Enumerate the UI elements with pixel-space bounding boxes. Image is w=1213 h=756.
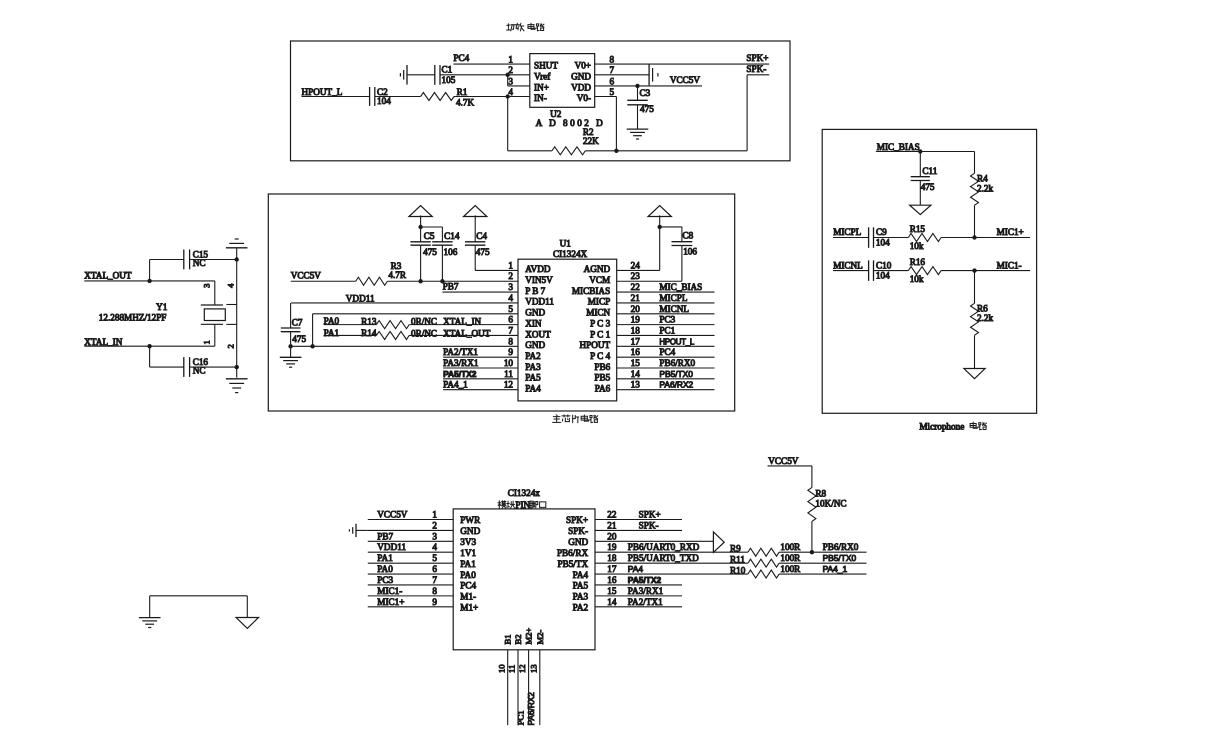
svg-text:PA3: PA3 <box>525 362 541 372</box>
svg-text:104: 104 <box>377 96 391 106</box>
svg-text:VCM: VCM <box>589 275 610 285</box>
svg-text:22K: 22K <box>583 136 599 146</box>
svg-text:21: 21 <box>607 520 617 530</box>
svg-text:MICBIAS: MICBIAS <box>572 286 610 296</box>
svg-text:SPK-: SPK- <box>639 520 659 530</box>
svg-text:V0+: V0+ <box>575 61 591 71</box>
svg-text:XOUT: XOUT <box>525 329 551 339</box>
svg-text:PC4: PC4 <box>453 53 469 63</box>
svg-text:1: 1 <box>508 55 513 65</box>
svg-text:2: 2 <box>432 520 437 530</box>
svg-text:GND: GND <box>525 308 545 318</box>
svg-text:PC1: PC1 <box>659 325 675 335</box>
svg-text:PA3/RX1: PA3/RX1 <box>443 358 479 368</box>
svg-text:GND: GND <box>460 526 480 536</box>
svg-text:5: 5 <box>610 87 615 97</box>
svg-text:2: 2 <box>226 344 236 348</box>
svg-text:C1: C1 <box>442 65 453 75</box>
svg-text:4: 4 <box>508 293 513 303</box>
svg-text:PB6/RX0: PB6/RX0 <box>823 542 859 552</box>
svg-text:1V1: 1V1 <box>460 548 476 558</box>
svg-text:R10: R10 <box>730 566 746 576</box>
svg-text:PB5/TX0: PB5/TX0 <box>823 553 857 563</box>
svg-text:475: 475 <box>423 247 437 257</box>
svg-text:CI1324x: CI1324x <box>508 488 541 498</box>
svg-text:MIC_BIAS: MIC_BIAS <box>659 282 702 292</box>
svg-text:R9: R9 <box>730 544 741 554</box>
svg-text:6: 6 <box>432 564 437 574</box>
svg-text:7: 7 <box>432 575 437 585</box>
svg-text:MICPL: MICPL <box>833 227 861 237</box>
svg-text:17: 17 <box>631 336 641 346</box>
svg-text:XTAL_IN: XTAL_IN <box>84 337 122 347</box>
svg-text:MIC1+: MIC1+ <box>997 227 1024 237</box>
svg-text:SPK+: SPK+ <box>566 515 588 525</box>
svg-text:1: 1 <box>202 340 212 344</box>
svg-text:C5: C5 <box>424 231 435 241</box>
svg-text:PA4_1: PA4_1 <box>443 380 468 390</box>
svg-text:PA2/TX1: PA2/TX1 <box>443 347 478 357</box>
svg-text:12.288MHZ/12PF: 12.288MHZ/12PF <box>99 312 167 322</box>
svg-text:19: 19 <box>607 542 617 552</box>
svg-text:PA4: PA4 <box>525 383 541 393</box>
svg-text:8: 8 <box>610 55 615 65</box>
svg-text:22: 22 <box>607 510 617 520</box>
svg-text:MIC_BIAS: MIC_BIAS <box>877 142 920 152</box>
svg-text:PA4: PA4 <box>628 564 644 574</box>
svg-text:XTAL_OUT: XTAL_OUT <box>84 270 132 280</box>
svg-text:13: 13 <box>528 664 538 673</box>
svg-text:VCC5V: VCC5V <box>377 510 407 520</box>
svg-text:1: 1 <box>432 510 437 520</box>
svg-text:475: 475 <box>292 334 306 344</box>
svg-text:IN-: IN- <box>534 93 547 103</box>
svg-text:XTAL_OUT: XTAL_OUT <box>443 329 491 339</box>
svg-text:PA5: PA5 <box>573 581 589 591</box>
svg-text:104: 104 <box>876 238 890 248</box>
svg-text:PA3/RX1: PA3/RX1 <box>628 586 664 596</box>
svg-text:11: 11 <box>504 369 513 379</box>
svg-text:5: 5 <box>432 553 437 563</box>
svg-text:PB5: PB5 <box>594 373 610 383</box>
svg-text:PB5/TX: PB5/TX <box>557 559 588 569</box>
svg-text:24: 24 <box>631 260 641 270</box>
svg-text:19: 19 <box>631 315 641 325</box>
svg-text:0R/NC: 0R/NC <box>411 316 437 326</box>
svg-text:VCC5V: VCC5V <box>670 75 700 85</box>
svg-text:PA5: PA5 <box>525 373 541 383</box>
svg-text:14: 14 <box>607 597 617 607</box>
svg-text:MIC1-: MIC1- <box>377 586 402 596</box>
svg-text:21: 21 <box>631 293 641 303</box>
svg-text:VDD11: VDD11 <box>377 542 406 552</box>
svg-text:PWR: PWR <box>460 515 481 525</box>
svg-text:M2-: M2- <box>535 630 545 645</box>
svg-text:Vref: Vref <box>534 71 551 81</box>
svg-text:PB7: PB7 <box>443 282 459 292</box>
svg-text:6: 6 <box>508 315 513 325</box>
svg-text:GND: GND <box>568 537 588 547</box>
svg-text:AVDD: AVDD <box>525 264 551 274</box>
svg-text:Microphone: Microphone <box>919 422 964 432</box>
svg-text:R15: R15 <box>910 224 926 234</box>
svg-text:4.7R: 4.7R <box>388 270 406 280</box>
svg-text:PB5/UART0_TXD: PB5/UART0_TXD <box>628 553 699 563</box>
svg-text:MICP: MICP <box>588 297 610 307</box>
svg-text:R16: R16 <box>910 257 926 267</box>
svg-text:104: 104 <box>876 271 890 281</box>
svg-text:MICPL: MICPL <box>659 293 687 303</box>
svg-text:C7: C7 <box>292 318 303 328</box>
svg-text:XTAL_IN: XTAL_IN <box>443 316 481 326</box>
svg-text:AGND: AGND <box>584 264 611 274</box>
svg-text:R8: R8 <box>815 488 826 498</box>
svg-text:PC4: PC4 <box>659 347 675 357</box>
svg-text:SHUT: SHUT <box>534 61 558 71</box>
svg-text:P B 7: P B 7 <box>525 286 545 296</box>
svg-text:16: 16 <box>631 347 641 357</box>
svg-text:18: 18 <box>607 553 617 563</box>
svg-text:VCC5V: VCC5V <box>291 270 321 280</box>
svg-text:6: 6 <box>610 76 615 86</box>
svg-text:1: 1 <box>508 260 513 270</box>
svg-text:15: 15 <box>607 586 617 596</box>
svg-text:PA4_1: PA4_1 <box>823 564 848 574</box>
svg-text:PA3: PA3 <box>573 592 589 602</box>
svg-text:PA6/RX2: PA6/RX2 <box>659 380 693 390</box>
svg-text:R4: R4 <box>977 173 988 183</box>
svg-text:4: 4 <box>226 283 236 288</box>
svg-text:475: 475 <box>921 182 935 192</box>
svg-text:PC1: PC1 <box>516 710 526 725</box>
svg-text:PA1: PA1 <box>460 559 476 569</box>
svg-text:C8: C8 <box>683 231 694 241</box>
svg-text:4: 4 <box>508 87 513 97</box>
svg-text:R1: R1 <box>457 87 468 97</box>
svg-text:3: 3 <box>202 284 212 288</box>
svg-text:VDD11: VDD11 <box>525 297 554 307</box>
svg-text:M1-: M1- <box>460 592 476 602</box>
svg-text:M2+: M2+ <box>524 628 534 645</box>
svg-text:SPK-: SPK- <box>746 64 766 74</box>
svg-text:7: 7 <box>508 325 513 335</box>
svg-text:22: 22 <box>631 282 641 292</box>
svg-text:MIC1+: MIC1+ <box>377 597 404 607</box>
svg-text:C11: C11 <box>922 166 937 176</box>
svg-text:106: 106 <box>683 247 697 257</box>
svg-text:105: 105 <box>442 75 456 85</box>
svg-text:R13: R13 <box>361 316 377 326</box>
svg-text:B2: B2 <box>513 634 523 644</box>
svg-text:10k: 10k <box>910 274 924 284</box>
svg-text:M1+: M1+ <box>460 602 478 612</box>
svg-text:20: 20 <box>607 531 617 541</box>
svg-text:PB6/UART0_RXD: PB6/UART0_RXD <box>628 542 700 552</box>
svg-text:5: 5 <box>508 304 513 314</box>
svg-text:PA4: PA4 <box>573 570 589 580</box>
svg-text:SPK-: SPK- <box>568 526 588 536</box>
svg-text:VDD: VDD <box>571 83 591 93</box>
svg-text:4: 4 <box>432 542 437 552</box>
svg-text:GND: GND <box>571 71 591 81</box>
svg-text:PA5/TX2: PA5/TX2 <box>628 575 662 585</box>
svg-text:0R/NC: 0R/NC <box>411 329 437 339</box>
svg-text:PB6/RX: PB6/RX <box>557 548 589 558</box>
svg-text:14: 14 <box>631 369 641 379</box>
svg-text:MICN: MICN <box>586 308 610 318</box>
svg-text:MICNL: MICNL <box>833 261 863 271</box>
svg-text:20: 20 <box>631 304 641 314</box>
svg-text:HPOUT_L: HPOUT_L <box>659 337 695 346</box>
svg-text:XIN: XIN <box>525 318 542 328</box>
svg-text:B1: B1 <box>503 634 513 644</box>
svg-text:C3: C3 <box>640 88 651 98</box>
svg-text:V0-: V0- <box>577 93 591 103</box>
svg-text:MIC1-: MIC1- <box>997 261 1022 271</box>
svg-text:106: 106 <box>444 247 458 257</box>
svg-text:PA5/TX2: PA5/TX2 <box>443 369 477 379</box>
svg-text:VIN5V: VIN5V <box>525 275 553 285</box>
svg-text:PC4: PC4 <box>460 581 476 591</box>
svg-text:Y1: Y1 <box>156 302 168 312</box>
svg-text:A D 8002 D: A D 8002 D <box>536 118 606 128</box>
svg-text:9: 9 <box>432 597 437 607</box>
svg-text:100R: 100R <box>780 564 801 574</box>
svg-text:PA6/RX2: PA6/RX2 <box>527 692 536 726</box>
svg-text:10: 10 <box>496 664 506 673</box>
svg-text:PC3: PC3 <box>377 575 393 585</box>
svg-text:C9: C9 <box>876 227 887 237</box>
svg-text:3: 3 <box>508 76 513 86</box>
svg-text:PC3: PC3 <box>659 315 675 325</box>
svg-text:8: 8 <box>508 336 513 346</box>
svg-text:P C 4: P C 4 <box>590 351 610 361</box>
svg-text:12: 12 <box>504 380 514 390</box>
svg-text:PA0: PA0 <box>377 564 393 574</box>
svg-text:R11: R11 <box>730 555 745 565</box>
svg-text:2: 2 <box>508 271 513 281</box>
svg-text:PA0: PA0 <box>460 570 476 580</box>
svg-text:8: 8 <box>432 586 437 596</box>
svg-text:P C 1: P C 1 <box>590 329 610 339</box>
svg-text:SPK+: SPK+ <box>639 510 661 520</box>
svg-text:475: 475 <box>640 104 654 114</box>
svg-text:MICNL: MICNL <box>659 304 689 314</box>
svg-text:100R: 100R <box>780 542 801 552</box>
svg-text:C4: C4 <box>476 231 487 241</box>
svg-text:10K/NC: 10K/NC <box>815 499 846 509</box>
svg-text:HPOUT: HPOUT <box>580 340 611 350</box>
svg-text:PA2: PA2 <box>573 602 589 612</box>
svg-text:13: 13 <box>631 380 641 390</box>
svg-text:C14: C14 <box>444 231 460 241</box>
svg-text:GND: GND <box>525 340 545 350</box>
svg-text:2: 2 <box>508 65 513 75</box>
svg-text:3: 3 <box>508 282 513 292</box>
svg-text:HPOUT_L: HPOUT_L <box>302 87 343 97</box>
svg-text:PB7: PB7 <box>377 531 393 541</box>
svg-text:12: 12 <box>517 664 527 673</box>
svg-text:2.2k: 2.2k <box>977 183 993 193</box>
svg-text:PA6: PA6 <box>595 383 611 393</box>
svg-text:CI1324X: CI1324X <box>553 249 588 259</box>
svg-text:17: 17 <box>607 564 617 574</box>
svg-text:R6: R6 <box>977 304 988 314</box>
svg-text:2.2k: 2.2k <box>977 313 993 323</box>
svg-text:PB6: PB6 <box>594 362 610 372</box>
svg-text:PA1: PA1 <box>377 553 393 563</box>
svg-text:U1: U1 <box>560 238 572 248</box>
svg-text:475: 475 <box>476 247 490 257</box>
svg-text:PA2: PA2 <box>525 351 541 361</box>
svg-text:C10: C10 <box>876 261 892 271</box>
svg-text:PB5/TX0: PB5/TX0 <box>659 369 693 379</box>
svg-text:18: 18 <box>631 325 641 335</box>
svg-text:4.7K: 4.7K <box>456 97 474 107</box>
svg-text:VCC5V: VCC5V <box>768 456 798 466</box>
svg-text:SPK+: SPK+ <box>746 53 768 63</box>
svg-text:100R: 100R <box>780 553 801 563</box>
svg-text:10k: 10k <box>910 241 924 251</box>
svg-text:PA1: PA1 <box>324 328 340 338</box>
svg-text:16: 16 <box>607 575 617 585</box>
svg-text:IN+: IN+ <box>534 83 549 93</box>
svg-text:9: 9 <box>508 347 513 357</box>
svg-text:P C 3: P C 3 <box>590 318 610 328</box>
svg-text:7: 7 <box>610 65 615 75</box>
svg-text:10: 10 <box>504 358 514 368</box>
svg-text:15: 15 <box>631 358 641 368</box>
svg-text:11: 11 <box>507 665 517 673</box>
svg-text:VDD11: VDD11 <box>346 294 375 304</box>
svg-text:3V3: 3V3 <box>460 537 476 547</box>
svg-text:R14: R14 <box>361 328 377 338</box>
svg-text:PB6/RX0: PB6/RX0 <box>659 358 695 368</box>
svg-text:PA2/TX1: PA2/TX1 <box>628 597 663 607</box>
svg-text:23: 23 <box>631 271 641 281</box>
svg-text:3: 3 <box>432 531 437 541</box>
